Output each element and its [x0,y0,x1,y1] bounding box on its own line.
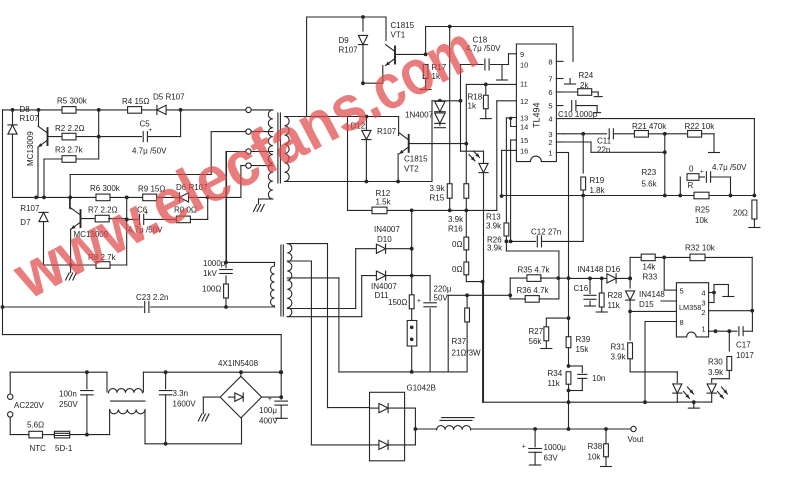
svg-text:D11: D11 [375,291,390,300]
svg-text:15k: 15k [576,345,590,354]
svg-text:R107: R107 [339,46,359,55]
svg-text:+: + [417,298,421,305]
svg-text:10: 10 [520,61,528,70]
svg-text:100Ω: 100Ω [202,285,221,294]
svg-text:VT2: VT2 [404,165,419,174]
svg-text:3.9k: 3.9k [448,215,464,224]
svg-text:11: 11 [520,79,528,88]
svg-text:56k: 56k [529,337,543,346]
svg-text:14k: 14k [643,263,657,272]
svg-text:21Ω/3W: 21Ω/3W [452,349,482,358]
svg-text:15: 15 [520,136,528,145]
svg-text:R13: R13 [486,213,501,222]
svg-text:1.8k: 1.8k [590,186,606,195]
svg-text:C17: C17 [736,341,751,350]
svg-text:R3 2.7k: R3 2.7k [55,146,84,155]
svg-text:12: 12 [520,97,528,106]
svg-text:+: + [268,396,272,403]
svg-text:D5 R107: D5 R107 [153,93,185,102]
svg-text:C11: C11 [597,137,612,146]
svg-text:R21 470k: R21 470k [632,122,667,131]
svg-text:9: 9 [520,50,524,59]
svg-text:C12 27n: C12 27n [531,228,561,237]
svg-text:3: 3 [701,299,705,308]
svg-text:LM358: LM358 [679,303,701,312]
svg-text:1000p: 1000p [203,259,226,268]
svg-text:1000μ: 1000μ [544,443,567,452]
svg-text:R35 4.7k: R35 4.7k [518,266,551,275]
svg-text:1.5k: 1.5k [376,198,392,207]
svg-text:14: 14 [520,123,528,132]
svg-text:3.9k: 3.9k [611,353,627,362]
svg-text:D15: D15 [639,300,654,309]
svg-text:+: + [522,443,526,450]
svg-text:3.3n: 3.3n [173,389,189,398]
svg-text:D7: D7 [20,218,31,227]
svg-text:5D-1: 5D-1 [55,444,73,453]
svg-text:4: 4 [548,115,552,124]
svg-text:4.7μ /50V: 4.7μ /50V [132,147,167,156]
svg-text:3.9k: 3.9k [486,222,502,231]
svg-text:11k: 11k [608,301,621,310]
svg-text:16: 16 [520,146,528,155]
svg-text:R39: R39 [576,335,591,344]
svg-text:R5 300k: R5 300k [57,97,88,106]
svg-text:R30: R30 [708,358,723,367]
svg-text:5: 5 [680,287,684,296]
svg-text:C16: C16 [574,284,589,293]
svg-text:MC13009: MC13009 [26,131,35,166]
svg-text:R32 10k: R32 10k [685,244,716,253]
svg-text:0: 0 [689,165,694,174]
svg-text:R107: R107 [20,204,40,213]
svg-text:220μ: 220μ [434,285,452,294]
svg-text:5.6Ω: 5.6Ω [27,421,44,430]
svg-text:150Ω: 150Ω [388,298,407,307]
svg-text:R19: R19 [590,176,605,185]
svg-text:0Ω: 0Ω [452,265,462,274]
svg-text:5: 5 [548,102,552,111]
svg-text:10n: 10n [592,374,605,383]
svg-text:R33: R33 [643,273,658,282]
svg-text:R36 4.7k: R36 4.7k [517,286,550,295]
svg-text:63V: 63V [544,454,559,463]
svg-text:IN4148 D16: IN4148 D16 [578,265,621,274]
svg-text:R24: R24 [579,71,594,80]
svg-text:4.7μ /50V: 4.7μ /50V [712,163,747,172]
svg-text:250V: 250V [59,400,78,409]
svg-text:6: 6 [548,88,552,97]
svg-text:20Ω: 20Ω [733,209,748,218]
svg-text:R25: R25 [695,206,710,215]
svg-text:10k: 10k [695,216,709,225]
svg-text:3.9k: 3.9k [708,368,724,377]
svg-text:R28: R28 [608,291,623,300]
svg-text:D9: D9 [339,36,350,45]
svg-text:TL494: TL494 [532,102,542,128]
svg-text:3.9k: 3.9k [430,184,446,193]
svg-text:D8: D8 [20,105,31,114]
svg-text:1k: 1k [468,102,477,111]
svg-text:2k: 2k [580,81,589,90]
svg-text:11k: 11k [548,379,561,388]
svg-text:R2 2.2Ω: R2 2.2Ω [55,124,85,133]
svg-text:IN4007: IN4007 [374,225,400,234]
svg-text:AC220V: AC220V [14,401,44,410]
svg-text:R18: R18 [468,93,483,102]
svg-text:R4 15Ω: R4 15Ω [122,97,149,106]
svg-text:+: + [700,169,704,176]
svg-text:7: 7 [548,75,552,84]
svg-text:1017: 1017 [736,351,754,360]
svg-text:22n: 22n [597,146,610,155]
svg-text:C5: C5 [140,120,151,129]
svg-text:R34: R34 [548,369,563,378]
svg-text:R31: R31 [611,343,626,352]
svg-text:1: 1 [548,149,552,158]
svg-text:8: 8 [548,57,552,66]
svg-text:R37: R37 [452,337,467,346]
svg-text:R27: R27 [529,327,544,336]
svg-text:8: 8 [680,318,684,327]
svg-text:10k: 10k [588,453,602,462]
svg-text:R22 10k: R22 10k [685,122,716,131]
svg-text:400V: 400V [259,417,278,426]
svg-text:R107: R107 [20,114,40,123]
svg-text:C10 1000p: C10 1000p [558,110,598,119]
svg-text:1: 1 [701,325,705,334]
svg-text:2: 2 [548,138,552,147]
svg-text:0Ω: 0Ω [452,240,462,249]
svg-text:R23: R23 [642,168,657,177]
svg-text:C23 2.2n: C23 2.2n [136,293,168,302]
svg-text:NTC: NTC [30,444,47,453]
svg-text:100n: 100n [59,390,77,399]
svg-text:R: R [688,181,694,190]
svg-text:4X1IN5408: 4X1IN5408 [218,359,259,368]
svg-text:R15: R15 [430,194,445,203]
svg-text:1kV: 1kV [203,269,217,278]
svg-text:5.6k: 5.6k [642,180,658,189]
svg-text:100μ: 100μ [259,406,277,415]
svg-text:C1815: C1815 [404,155,428,164]
svg-text:G1042B: G1042B [407,384,436,393]
svg-text:R16: R16 [448,225,463,234]
svg-text:50V: 50V [434,294,449,303]
svg-text:D10: D10 [377,235,392,244]
svg-text:13: 13 [520,114,528,123]
svg-text:R38: R38 [588,442,603,451]
svg-text:IN4007: IN4007 [371,282,397,291]
svg-text:3.9k: 3.9k [487,244,503,253]
svg-text:IN4148: IN4148 [639,290,665,299]
svg-text:1600V: 1600V [173,400,197,409]
svg-text:Vout: Vout [628,435,645,444]
svg-text:C1815: C1815 [391,21,415,30]
svg-text:4: 4 [701,289,705,298]
svg-text:2: 2 [701,308,705,317]
